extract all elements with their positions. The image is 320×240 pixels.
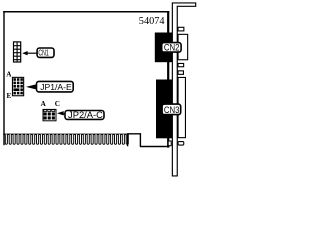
svg-text:54074: 54074 (139, 16, 165, 27)
svg-text:JP2/A-C: JP2/A-C (68, 109, 103, 120)
svg-text:E: E (7, 92, 12, 100)
svg-text:CN1: CN1 (38, 48, 49, 58)
svg-text:C: C (55, 100, 60, 108)
svg-text:JP1/A-E: JP1/A-E (40, 82, 72, 92)
svg-text:A: A (6, 70, 12, 78)
svg-text:CN3: CN3 (164, 105, 180, 115)
svg-text:A: A (41, 100, 47, 108)
svg-text:CN2: CN2 (164, 42, 180, 52)
